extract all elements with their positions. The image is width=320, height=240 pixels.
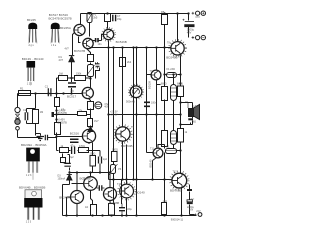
svg-text:BF245A: BF245A — [60, 26, 71, 30]
resistor R12 h — [60, 148, 69, 153]
wire lower rail y179.5 — [109, 179, 172, 181]
svg-text:47µ: 47µ — [71, 144, 76, 147]
svg-text:BDV64B .. BDV65B: BDV64B .. BDV65B — [19, 185, 45, 189]
svg-text:1 2 3: 1 2 3 — [27, 82, 33, 85]
svg-text:10Ω: 10Ω — [163, 200, 168, 203]
junction bias row y78 — [70, 77, 72, 79]
svg-text:22µ: 22µ — [70, 90, 75, 93]
svg-text:680Ω: 680Ω — [161, 82, 167, 85]
capacitor C3 — [96, 38, 98, 42]
wire coil to x182.5 — [177, 150, 181, 152]
wire vertical x133.5 — [133, 48, 135, 180]
svg-text:F1 2A5: F1 2A5 — [167, 67, 176, 71]
wire vertical x146.5 driver bases — [147, 48, 153, 153]
svg-text:BDV65B: BDV65B — [170, 188, 182, 192]
wire y150.5 row — [63, 143, 101, 164]
capacitor C14 — [64, 163, 70, 166]
elco C11 — [183, 19, 195, 27]
wire BC517 emitter chain — [89, 99, 91, 131]
svg-text:BC547B BC557B: BC547B BC557B — [49, 17, 72, 21]
svg-text:BD249B: BD249B — [166, 56, 177, 60]
wire BF245A gate / zener D1 — [57, 33, 91, 94]
transistor Q13 BD140 driver — [118, 182, 135, 199]
terminal +37V — [192, 11, 206, 15]
elco C16 — [99, 157, 102, 164]
elco C7 — [95, 102, 102, 109]
svg-text:150Ω: 150Ω — [112, 149, 118, 152]
transistor Q2 BC547B — [83, 38, 93, 48]
svg-text:P2: P2 — [96, 65, 100, 69]
wire BC547B emitter to R — [87, 49, 91, 55]
resistor R10 h — [78, 112, 87, 116]
svg-text:1 2 3: 1 2 3 — [26, 221, 32, 224]
capacitor C5 — [52, 112, 55, 117]
junction bottom rail — [65, 214, 67, 216]
junction row y172.5 — [68, 171, 70, 173]
svg-text:500mW: 500mW — [126, 99, 135, 103]
ground chassis — [36, 124, 45, 141]
resistor R19 — [120, 58, 126, 67]
svg-text:BC546B: BC546B — [80, 177, 91, 181]
wire vertical x156.5 BD139 — [157, 48, 161, 148]
wire speaker column — [192, 103, 194, 125]
svg-text:10n: 10n — [98, 43, 103, 46]
svg-text:4V7: 4V7 — [65, 47, 70, 50]
resistor R13 h — [79, 148, 89, 153]
elco C22 output — [187, 200, 193, 203]
svg-text:BD140: BD140 — [149, 159, 153, 167]
svg-text:LS: LS — [194, 105, 197, 108]
svg-text:22V: 22V — [196, 210, 201, 213]
wire C cap x102.5 — [99, 151, 101, 173]
svg-text:4V7: 4V7 — [59, 58, 64, 62]
wire BD140 driver emitter path — [153, 145, 165, 180]
wire C3 to BC546B base — [102, 35, 104, 41]
package TO-220 case BDV64/BDV65 — [24, 190, 42, 220]
capacitor C15 — [97, 185, 105, 190]
wire mid rail y47.5 — [91, 47, 171, 49]
junction fuse row y74.5 — [163, 73, 165, 75]
wire bottom right R stub — [164, 180, 166, 216]
junction mid rail y47.5 — [107, 46, 109, 48]
package TO-126 case BD139/BD140 — [27, 61, 36, 85]
svg-text:470Ω: 470Ω — [79, 145, 85, 148]
capacitor C2 — [25, 112, 28, 120]
resistor R4 — [105, 14, 111, 22]
svg-text:680Ω: 680Ω — [177, 82, 183, 85]
svg-text:1k8: 1k8 — [59, 73, 64, 76]
capacitor C9 elco — [72, 147, 75, 155]
wire C3 stubs — [93, 40, 102, 42]
svg-text:2k2: 2k2 — [127, 60, 132, 64]
svg-text:2k5: 2k5 — [93, 15, 98, 19]
svg-text:100µ: 100µ — [126, 208, 132, 211]
transistor Q4 BC517 — [82, 87, 93, 98]
wire BC517 collector — [90, 77, 92, 88]
svg-text:37V: 37V — [195, 15, 200, 19]
svg-text:40V: 40V — [104, 107, 109, 109]
transistor Q9 BD249B — [169, 40, 186, 57]
wire P1 bottom to BC547B — [89, 23, 91, 37]
wire BF245A source to BC547B base — [79, 37, 81, 43]
wire output elco column — [190, 185, 195, 215]
resistor R20 — [162, 87, 168, 101]
fuse F1 — [167, 73, 178, 78]
capacitor C6 — [45, 135, 47, 141]
svg-text:BD140: BD140 — [136, 191, 146, 195]
wire vertical x126.5 BD140 collector — [126, 145, 128, 216]
transistor Q6 BD139 — [151, 70, 161, 80]
wire bottom rail y215.5 — [63, 215, 197, 217]
resistor R17 — [90, 156, 96, 167]
capacitor C par R4 — [113, 15, 116, 21]
elco C17 — [109, 204, 115, 216]
zener D1 — [69, 56, 74, 62]
resistor R15b — [75, 76, 86, 81]
resistor R21 — [178, 86, 184, 97]
wire R16.5 column — [93, 151, 101, 173]
wire R to P2 trimmer — [90, 63, 92, 65]
wire top rail +37V — [81, 13, 189, 15]
resistor R6 — [55, 98, 60, 107]
svg-text:T12: T12 — [173, 171, 178, 174]
svg-text:100mA: 100mA — [58, 177, 66, 180]
svg-text:1Ω: 1Ω — [85, 206, 88, 209]
elco C5a — [68, 83, 76, 87]
svg-text:900014-11: 900014-11 — [171, 217, 184, 221]
wire vertical x173.5 elco column — [173, 75, 175, 149]
svg-text:T11: T11 — [150, 148, 155, 151]
svg-text:40V: 40V — [189, 209, 194, 212]
resistor R16 — [91, 205, 97, 216]
wire feedback column x57.5 — [48, 94, 59, 151]
resistor R5 — [162, 15, 168, 25]
svg-text:4V7: 4V7 — [94, 119, 99, 123]
wire C2 R2 parallel — [27, 94, 36, 136]
resistor R1 — [19, 91, 31, 96]
inductor L1 — [166, 149, 178, 154]
wire vertical x108.5 BC546B emitter — [108, 41, 110, 180]
terminal 0V — [192, 35, 206, 39]
loudspeaker LS1 — [185, 102, 200, 120]
wire C8 stub — [146, 97, 148, 115]
wire output terminal — [192, 215, 197, 217]
wire output bus y114.5 — [109, 114, 181, 116]
resistor R23 — [178, 129, 184, 143]
wire BD249B collector — [177, 14, 179, 42]
svg-text:40V: 40V — [187, 30, 192, 34]
wire supply cap x189 — [188, 14, 190, 38]
resistor R8 — [88, 55, 94, 62]
transistor Q1 BF245A — [74, 24, 85, 35]
wire BF245A drain — [80, 14, 82, 26]
transistor Q8 BD140 — [153, 148, 163, 158]
svg-text:C2: C2 — [23, 108, 27, 112]
wire bottom left cluster — [63, 155, 70, 216]
elco C5b — [70, 139, 79, 142]
svg-text:BC517: BC517 — [67, 94, 77, 98]
transistor Q5 BC516 — [82, 129, 95, 142]
package TO-225 case BD249/BD250 — [26, 148, 40, 180]
zener D3 — [67, 171, 72, 181]
resistor R9 — [88, 102, 94, 110]
resistor R2 — [33, 110, 39, 124]
capacitor C4 — [96, 62, 100, 69]
svg-text:C1: C1 — [45, 85, 49, 89]
svg-text:BC547B: BC547B — [74, 49, 85, 53]
capacitor LS bar — [188, 118, 193, 120]
wire R row y114.5 — [57, 114, 91, 116]
wire elco C5a stubs — [71, 78, 73, 94]
wire vertical x164.5 R5/fuse column — [165, 25, 167, 216]
capacitor C8 — [144, 102, 150, 106]
wire bottom Q stubs — [67, 184, 112, 216]
terminal output — [195, 213, 202, 217]
transistor Q14 BDV65B — [170, 171, 189, 190]
svg-text:BD139 .. BD140: BD139 .. BD140 — [22, 57, 44, 61]
wire pot P3 feed — [136, 48, 138, 216]
resistor R7 — [55, 123, 61, 135]
input socket K1 — [15, 107, 20, 130]
wire BC516 base emitter — [57, 126, 91, 144]
junction input wire y93.5 — [34, 92, 36, 94]
resistor R24 — [162, 203, 167, 215]
junction rail y179.5 — [112, 178, 114, 180]
package TO-92 case BC517/BC547B — [51, 23, 60, 44]
wire y172 row bottom — [70, 173, 111, 191]
svg-text:BC516: BC516 — [70, 131, 80, 135]
svg-text:8Ω: 8Ω — [193, 122, 196, 124]
junction top rail — [187, 12, 189, 14]
diode D2 — [88, 127, 93, 132]
trimmer P1 — [87, 13, 92, 23]
elco C12 — [171, 85, 177, 101]
svg-text:BC547B: BC547B — [58, 112, 68, 115]
transistor Q12 — [104, 188, 117, 201]
svg-text:+20.9V: +20.9V — [110, 113, 118, 116]
wire bottom elco pair stubs — [121, 180, 124, 204]
svg-text:BC557B: BC557B — [58, 122, 68, 125]
elco C21 top bar — [187, 189, 192, 191]
transistor Q3 BC546B — [102, 28, 116, 42]
capacitor C18 — [119, 204, 125, 216]
svg-text:150k: 150k — [76, 73, 82, 76]
junction output bus — [179, 101, 181, 103]
svg-text:100Ω: 100Ω — [90, 152, 96, 155]
svg-text:R1: R1 — [20, 86, 24, 90]
svg-text:33p: 33p — [117, 17, 122, 21]
junction feedback column — [55, 109, 57, 111]
pot P3 — [129, 85, 144, 100]
resistor R11 — [88, 119, 93, 127]
svg-text:c b e: c b e — [51, 44, 57, 47]
wire input node — [18, 94, 73, 138]
svg-text:d g s: d g s — [29, 44, 35, 47]
svg-text:BD139: BD139 — [148, 81, 152, 89]
svg-text:BC558B: BC558B — [110, 201, 120, 205]
svg-text:BF245A: BF245A — [59, 195, 70, 199]
transistor Q10 BC546B — [84, 177, 98, 191]
resistor R18 small — [61, 158, 66, 163]
svg-text:1M: 1M — [40, 111, 43, 114]
wire vertical x122.5 BDV64B — [122, 48, 124, 180]
capacitor C1 — [48, 88, 51, 96]
transistor Q11 BF245A — [71, 191, 84, 204]
trimmer P2 — [87, 65, 95, 77]
wire R4 bottom to BC546B — [107, 22, 109, 29]
svg-text:BD249A .. BD250A: BD249A .. BD250A — [21, 143, 47, 147]
elco C13 — [171, 131, 177, 145]
svg-text:2µ2: 2µ2 — [70, 156, 75, 159]
resistor R15a — [59, 76, 68, 81]
trimmer P4 — [109, 164, 118, 175]
svg-text:T10: T10 — [117, 183, 122, 186]
transistor Q7 BDV64B — [114, 125, 132, 143]
wire speaker bottom — [190, 123, 192, 125]
wire cap C4 stubs — [96, 63, 100, 79]
wire BC517 base — [57, 93, 83, 95]
resistor R22 — [162, 131, 168, 147]
wire vertical x113.5 — [113, 48, 115, 205]
svg-text:BF245: BF245 — [27, 18, 36, 22]
svg-text:47µ: 47µ — [104, 104, 109, 106]
wire vertical x182.5 output column — [178, 54, 193, 216]
svg-text:R5: R5 — [161, 10, 165, 14]
svg-text:BDV64B: BDV64B — [121, 144, 133, 148]
svg-text:BC546B: BC546B — [116, 40, 127, 44]
svg-text:1 2 3: 1 2 3 — [26, 174, 32, 177]
resistor R14 — [112, 152, 118, 162]
package TO-92 case BF245 — [28, 23, 37, 44]
svg-text:100n: 100n — [151, 102, 157, 105]
